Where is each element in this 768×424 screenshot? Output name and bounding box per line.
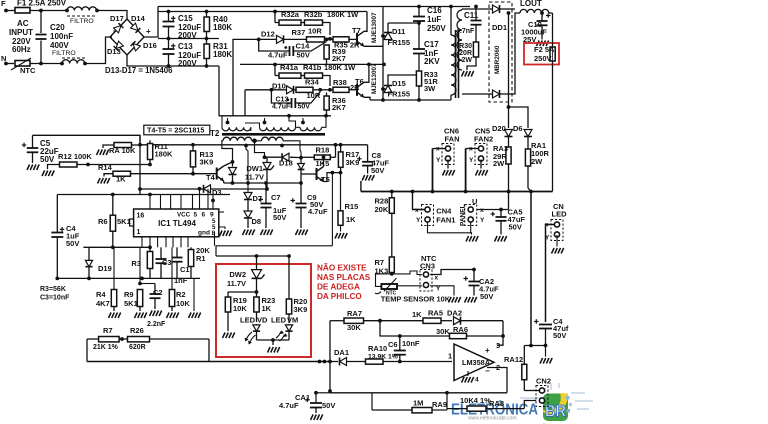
svg-text:D17: D17 [110,14,124,23]
capacitor C13 [168,39,170,49]
svg-text:RA 10K: RA 10K [109,146,136,155]
resistor R13 [190,151,195,167]
svg-text:D13: D13 [107,47,121,56]
svg-text:RA8: RA8 [489,399,504,408]
svg-text:FAN: FAN [445,135,460,144]
wire T5 collector [323,157,325,166]
svg-text:R18: R18 [316,146,330,155]
svg-text:D6: D6 [513,124,523,133]
svg-text:T4-T5 = 2SC1815: T4-T5 = 2SC1815 [147,126,204,135]
ground R15 [335,233,347,239]
wire T5 emitter [324,173,341,182]
wire R14 to T4 base [131,173,217,175]
wire output node [524,345,545,347]
wire pins to divider row [113,247,115,289]
diode D7 [245,146,247,150]
svg-text:C15: C15 [178,14,193,23]
svg-text:1: 1 [137,229,141,236]
wire DD1 output join [512,13,520,94]
transistor T6 MJE13007 [357,82,364,97]
svg-text:CN2: CN2 [536,377,551,386]
bridge rectifier D13-D17 [110,19,144,55]
wire rail A [224,182,301,184]
svg-text:FR155: FR155 [388,38,411,47]
svg-text:x: x [480,207,484,214]
diode D15 FR155 [381,87,385,91]
svg-text:C11: C11 [464,11,479,20]
svg-text:FAN1: FAN1 [436,216,455,225]
svg-text:Y: Y [436,286,441,293]
svg-text:RA9: RA9 [432,400,447,409]
svg-text:RA5: RA5 [428,309,443,318]
svg-text:Y: Y [480,217,485,224]
svg-text:R41b: R41b [303,63,322,72]
svg-text:C6: C6 [388,340,398,349]
svg-text:VD: VD [257,316,268,325]
svg-text:x: x [435,275,439,282]
svg-text:Y: Y [469,157,474,164]
svg-text:R14: R14 [98,163,113,172]
wire DW2 feed [216,255,289,257]
svg-text:2KV: 2KV [424,57,440,66]
capacitor C1 [172,258,183,262]
svg-text:FILTRO: FILTRO [52,50,76,57]
T2 top winding 2 [260,127,296,131]
wire CA5 rail [477,209,509,211]
svg-text:INPUT: INPUT [9,28,33,37]
svg-text:RA12: RA12 [504,355,523,364]
svg-text:NAS PLACAS: NAS PLACAS [317,273,371,282]
op-amp LM358A [454,344,494,381]
svg-text:R9: R9 [124,290,134,299]
svg-text:1: 1 [448,352,452,361]
IC top pin wires [149,195,151,210]
svg-text:C13: C13 [178,42,193,51]
wire R6 rail [57,194,230,196]
transformer T2 secondary winding [457,10,462,70]
wire LED join [257,339,290,341]
svg-text:LED: LED [271,316,287,325]
svg-text:50V: 50V [298,104,311,111]
wire bridge minus rail [127,55,219,66]
resistor RA3 [506,147,511,164]
svg-text:21K 1%: 21K 1% [93,344,119,351]
T2 top winding 1 [221,116,223,128]
svg-text:F1 2.5A 250V: F1 2.5A 250V [17,0,67,8]
resistor R20 [288,256,290,299]
wire CN2 pin2 to RA8 [524,401,536,409]
transformer T2 core bar [222,133,325,136]
svg-text:DE ADEGA: DE ADEGA [317,283,360,292]
svg-text:50V: 50V [273,213,286,222]
svg-text:50V: 50V [553,331,566,340]
ground PANEL [470,222,473,235]
svg-text:50V: 50V [480,292,493,301]
wire riser R32 [274,12,276,23]
wire DW2 node [228,291,257,293]
capacitor C15 [167,10,171,14]
svg-text:3: 3 [496,341,500,350]
svg-text:1K: 1K [116,175,126,184]
svg-text:MBR2060: MBR2060 [494,45,501,74]
wire T4 emitter [223,181,225,183]
resistor R32b [305,20,323,25]
svg-text:4K7: 4K7 [96,299,110,308]
wire T5 emitter column [331,173,333,246]
svg-text:6: 6 [202,212,206,219]
diode D14 [131,23,141,33]
diode D11 FR155 [381,34,385,38]
svg-text:1K: 1K [262,304,272,313]
wire R12 node [77,164,150,166]
wire R32b to base node [323,23,331,36]
wire riser R41 [274,65,276,76]
IC1 TL494 [134,209,219,237]
diode DD1 top [489,8,492,10]
svg-text:1K: 1K [412,310,422,319]
svg-text:50V: 50V [297,51,310,60]
svg-text:30K: 30K [347,323,361,332]
svg-text:LED: LED [552,210,568,219]
wire T6 collector [364,64,369,82]
svg-text:D20: D20 [492,124,506,133]
watermark eletronicabr logo [520,383,593,424]
wire R41b to base node [323,76,331,87]
resistor R33 [418,60,420,71]
resistor R6 [110,215,115,231]
T2 top winding 3 [300,127,322,131]
svg-text:5: 5 [194,212,198,219]
wire D3 rail [140,188,267,190]
resistor R41b [305,73,323,78]
svg-text:10K: 10K [233,304,247,313]
capacitor C10 [541,13,543,21]
capacitor C16 [417,5,421,9]
wire gnd row line [216,245,333,247]
wire secondary to DD1 [462,8,489,10]
svg-text:R4: R4 [96,290,106,299]
wire left drop [86,339,88,362]
svg-text:R7: R7 [103,326,113,335]
diode D6 [509,107,529,128]
svg-text:10R: 10R [308,27,322,36]
svg-text:50V: 50V [322,401,335,410]
resistor RA6 feedback [380,321,400,336]
wire T5 base column down [300,174,302,183]
svg-text:2K7: 2K7 [332,54,346,63]
wire lower bank feed [240,63,384,65]
svg-text:5K1: 5K1 [117,217,131,226]
svg-text:-: - [113,26,116,35]
svg-text:1K: 1K [346,215,356,224]
capacitor CA2 [473,270,475,282]
red box missing block [216,264,311,357]
wire center tap to node [255,141,265,157]
svg-text:1uF: 1uF [427,15,441,24]
svg-text:C17: C17 [424,40,439,49]
wire vcc rail right [140,144,216,146]
capacitor C5 [32,135,34,147]
ground output [545,346,547,357]
ground CN LED [556,235,558,247]
wire T7 collector [364,12,367,32]
svg-text:3K9: 3K9 [294,305,308,314]
wire thermistor left to CN3 top [376,271,422,286]
svg-text:F2 5A: F2 5A [534,45,555,54]
svg-text:LOUT: LOUT [520,0,542,8]
resistor R40 [205,10,209,14]
capacitor C4 [56,195,58,233]
diode D3 [204,185,211,193]
diode D19 [88,247,90,260]
svg-text:RA7: RA7 [347,309,362,318]
wire CN5 feed [465,149,467,192]
ground op-amp [467,371,469,376]
resistor R36 [324,96,329,110]
svg-text:VCC: VCC [177,212,191,219]
svg-text:+: + [146,27,151,36]
wire aux rail [508,13,510,107]
resistor R30 [473,42,478,57]
box T4-T5 legend [144,125,210,135]
svg-text:180K: 180K [213,50,232,59]
svg-text:2W: 2W [493,159,505,168]
svg-text:2K7: 2K7 [332,103,346,112]
resistor R1 [188,250,193,267]
resistor R39 [324,45,329,59]
svg-text:60Hz: 60Hz [12,45,31,54]
svg-text:CN4: CN4 [436,207,452,216]
resistor R32a [279,20,301,25]
resistor R28 [389,198,394,214]
svg-text:4.7uF: 4.7uF [279,401,299,410]
svg-text:FILTRO: FILTRO [70,18,94,25]
wire T7 emitter to mid [364,45,383,47]
svg-text:10nF: 10nF [402,339,420,348]
T2 bottom winding right end [283,141,301,158]
wire bottom rail left [57,277,200,279]
wire R7 R26 row [87,338,99,340]
fuse F1 [15,8,30,14]
svg-text:F: F [1,0,6,8]
resistor R35 [333,37,349,42]
svg-text:2W: 2W [531,157,543,166]
svg-text:20K: 20K [375,205,389,214]
resistor RA1 [525,149,530,166]
svg-text:Y: Y [436,157,441,164]
capacitor C7 [261,204,272,208]
IC bottom pin wires [141,237,143,248]
wire CA1 bus [314,391,318,395]
wire drive top rail [220,115,331,117]
svg-text:MJE13007: MJE13007 [371,12,378,43]
svg-text:R1: R1 [196,254,206,263]
wire bus junctions [318,360,322,364]
wire R28 chain [391,192,393,198]
svg-text:R32a: R32a [281,10,300,19]
svg-text:RA10: RA10 [368,344,387,353]
svg-text:3W: 3W [424,84,436,93]
svg-text:D11: D11 [392,27,405,36]
svg-text:R26: R26 [130,326,144,335]
svg-text:C14: C14 [296,42,311,51]
svg-text:DA PHILCO: DA PHILCO [317,292,362,301]
svg-text:50V: 50V [40,155,55,164]
resistor R19 [227,292,229,297]
wire primary top rail [158,6,470,8]
transistor T5 2SC1815 [317,167,324,182]
ground R12 [48,165,60,170]
svg-text:gnd: gnd [198,230,210,237]
wire filtro bottom to bridge [85,37,112,64]
svg-text:CN3: CN3 [420,262,435,271]
svg-text:1M: 1M [413,399,423,408]
svg-text:C3=10nF: C3=10nF [40,295,70,302]
svg-text:x: x [415,207,419,214]
svg-text:4.7uF: 4.7uF [268,51,288,60]
resistor R15 [340,173,342,211]
wire bottom bus 2 [330,392,507,394]
svg-text:D19: D19 [98,264,112,273]
wire bridge plus to rails [144,7,158,38]
svg-text:+: + [485,346,490,355]
svg-text:250V: 250V [427,24,446,33]
diode D8 [244,211,252,218]
wire CN3 top to CA2 [430,270,474,275]
svg-text:620R: 620R [129,344,146,351]
resistor R41a [279,73,301,78]
wire RA7 line [330,320,344,322]
wire filtro top to bridge [97,11,127,21]
svg-text:3K9: 3K9 [200,158,214,167]
svg-text:D18: D18 [279,159,293,168]
fuse F2 [552,13,554,47]
wire minus rail down [218,66,220,116]
wire vcc top rail [33,135,141,145]
resistor R34 [296,87,313,92]
svg-text:T4: T4 [206,173,216,182]
wire primary bottom [370,99,451,101]
svg-text:www.eletronicabr.com: www.eletronicabr.com [468,416,517,422]
ground extra [189,313,201,319]
svg-text:FAN2: FAN2 [474,135,493,144]
wire pin2 feedback [487,368,507,393]
wire T6 emitter [364,97,370,100]
svg-text:11.7V: 11.7V [227,279,246,288]
wire C2 top [140,283,155,285]
svg-text:50V: 50V [509,223,522,232]
svg-text:20R: 20R [459,50,472,57]
svg-text:C16: C16 [427,6,442,15]
svg-text:LED: LED [240,316,256,325]
svg-text:DW2: DW2 [229,270,246,279]
svg-text:16: 16 [137,213,145,220]
wire feeds from driver [232,39,234,116]
diode D17 [114,23,124,33]
svg-text:D15: D15 [392,79,406,88]
svg-text:R6: R6 [98,217,108,226]
wire secondary bus [360,181,362,192]
capacitor C14 [259,39,290,51]
T2 bottom winding 2 [262,137,284,141]
connector CN4 FAN1 [422,205,434,226]
thermistor NTC [6,63,14,65]
svg-text:BR: BR [545,402,566,421]
svg-text:D12: D12 [261,30,275,39]
svg-text:AC: AC [17,19,29,28]
svg-text:C3: C3 [162,258,172,267]
svg-text:R32b: R32b [304,10,323,19]
svg-text:VM: VM [287,316,298,325]
svg-text:100nF: 100nF [50,32,73,41]
svg-text:50V: 50V [371,166,384,175]
T2 bottom winding 1 [223,137,252,141]
svg-text:10K4 1%: 10K4 1% [460,396,491,405]
wire rail 310V [158,11,367,13]
wire bus to RA12 [530,192,532,346]
svg-text:4: 4 [475,377,479,384]
resistor R38 [333,87,349,92]
resistor RA 10K [114,143,132,148]
svg-text:5K1: 5K1 [124,299,138,308]
filter inductor FILTRO top [65,9,69,13]
svg-text:IC1 TL494: IC1 TL494 [158,219,196,228]
resistor R31 [206,39,208,45]
transformer T2 core [455,30,457,98]
svg-text:R37: R37 [292,28,306,37]
svg-text:TEMP SENSOR 10K: TEMP SENSOR 10K [381,295,451,304]
svg-text:DA2: DA2 [447,309,462,318]
svg-text:50V: 50V [66,239,79,248]
wire CN6 feed [432,149,434,192]
svg-text:DA1: DA1 [334,348,349,357]
wire bottom bus left [87,361,330,363]
svg-text:Y: Y [416,217,421,224]
ground C8 [362,175,374,181]
diode D18 [265,156,282,158]
svg-text:T2: T2 [210,129,220,138]
capacitor C13b [271,90,291,103]
capacitor CA5 [500,210,502,217]
svg-text:R15: R15 [345,202,359,211]
wire CN4 Y to ground [428,222,472,233]
wire F2 down [552,61,554,192]
diode D13 [114,41,124,51]
resistor R17 [338,152,343,167]
resistor R23 [256,292,258,297]
rectifier DD1 MBR2060 [489,2,512,102]
capacitor C9 [291,198,307,207]
svg-text:FR155: FR155 [388,90,411,99]
transformer T2 primary winding [450,7,452,36]
wire CN3 to ground [430,286,454,296]
resistor R7b 1K3 [389,257,394,273]
svg-text:T5: T5 [321,175,330,184]
svg-text:2.2nF: 2.2nF [147,321,166,328]
svg-text:1nF: 1nF [174,276,188,285]
svg-text:MJE13007: MJE13007 [371,63,378,94]
wire mid rail [158,38,219,40]
wire thermistor right to CN3 bottom [397,285,422,287]
svg-text:180K: 180K [213,23,232,32]
svg-text:T6: T6 [355,77,364,86]
transistor T4 2SC1815 [217,166,224,181]
svg-text:30K: 30K [436,327,450,336]
svg-text:R3=56K: R3=56K [40,286,66,293]
svg-text:4.7uF: 4.7uF [272,104,291,111]
svg-text:D16: D16 [143,41,157,50]
svg-text:400V: 400V [50,41,69,50]
